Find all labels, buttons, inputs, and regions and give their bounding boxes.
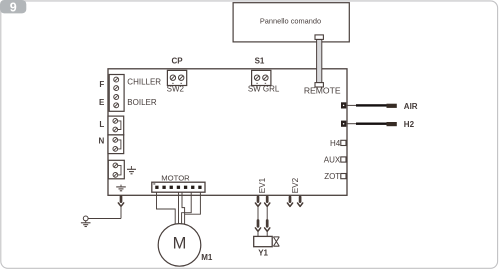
svg-text:H2: H2 <box>404 120 415 129</box>
svg-text:F: F <box>99 80 104 89</box>
svg-text:L: L <box>99 120 104 129</box>
svg-text:EV1: EV1 <box>258 177 267 193</box>
svg-text:N: N <box>99 136 105 145</box>
svg-text:ZOT: ZOT <box>324 172 340 181</box>
svg-text:H4: H4 <box>330 139 341 148</box>
svg-text:CP: CP <box>171 56 183 65</box>
svg-text:REMOTE: REMOTE <box>304 86 341 96</box>
svg-text:MOTOR: MOTOR <box>161 173 190 182</box>
svg-text:AIR: AIR <box>404 102 418 111</box>
svg-text:EV2: EV2 <box>291 177 300 193</box>
svg-text:Pannello comando: Pannello comando <box>260 17 321 26</box>
svg-text:M1: M1 <box>201 253 213 262</box>
svg-text:S1: S1 <box>255 56 265 65</box>
svg-text:CHILLER: CHILLER <box>127 78 161 87</box>
svg-text:BOILER: BOILER <box>127 98 157 107</box>
svg-text:Y1: Y1 <box>258 249 268 258</box>
svg-text:SW GRL: SW GRL <box>248 84 280 93</box>
svg-text:AUX: AUX <box>324 155 341 164</box>
svg-text:E: E <box>99 98 105 107</box>
svg-text:SW2: SW2 <box>167 84 185 93</box>
svg-text:M: M <box>173 234 187 252</box>
svg-text:9: 9 <box>10 0 17 14</box>
